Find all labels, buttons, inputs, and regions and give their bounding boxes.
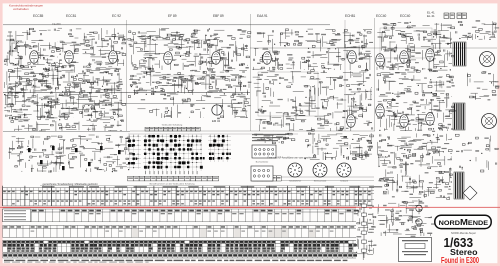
svg-text:CA 200: CA 200	[52, 22, 61, 26]
svg-text:gezeichnete Tonabstellung: Mit: gezeichnete Tonabstellung: Mittelwelle g…	[43, 182, 98, 186]
svg-text:EBF 89: EBF 89	[213, 14, 224, 18]
svg-text:EAA 91: EAA 91	[257, 14, 268, 18]
svg-text:Tonband: Tonband	[340, 181, 348, 183]
svg-text:ECC40: ECC40	[376, 14, 387, 18]
svg-text:ECH81: ECH81	[345, 14, 356, 18]
svg-text:EF 89: EF 89	[168, 14, 177, 18]
svg-text:Tonabnehmer: Tonabnehmer	[289, 181, 302, 183]
svg-text:EM 34: EM 34	[212, 119, 221, 123]
svg-text:Gedruckte Schaltung: Gedruckte Schaltung	[162, 124, 183, 127]
svg-text:ECC40: ECC40	[400, 14, 411, 18]
svg-text:EL 41: EL 41	[427, 14, 435, 18]
svg-text:Found in E300: Found in E300	[441, 255, 479, 265]
svg-text:ECC85: ECC85	[33, 14, 44, 18]
svg-text:ECC40: ECC40	[355, 153, 364, 157]
svg-text:ECC 82: ECC 82	[378, 155, 388, 159]
svg-text:ECC81: ECC81	[66, 14, 77, 18]
svg-text:Stereo-Zusatz: Stereo-Zusatz	[314, 180, 327, 183]
svg-text:Bestellnummern an der Gedruckt: Bestellnummern an der Gedruckten Schaltu…	[150, 182, 196, 185]
svg-text:EC 92: EC 92	[112, 14, 121, 18]
svg-text:vorbehalten: vorbehalten	[13, 7, 29, 11]
svg-text:Fern- und NF-Anschlüsse von vo: Fern- und NF-Anschlüsse von vorn gesehen	[267, 157, 313, 160]
svg-text:Buchsenleiste: Buchsenleiste	[256, 160, 269, 163]
